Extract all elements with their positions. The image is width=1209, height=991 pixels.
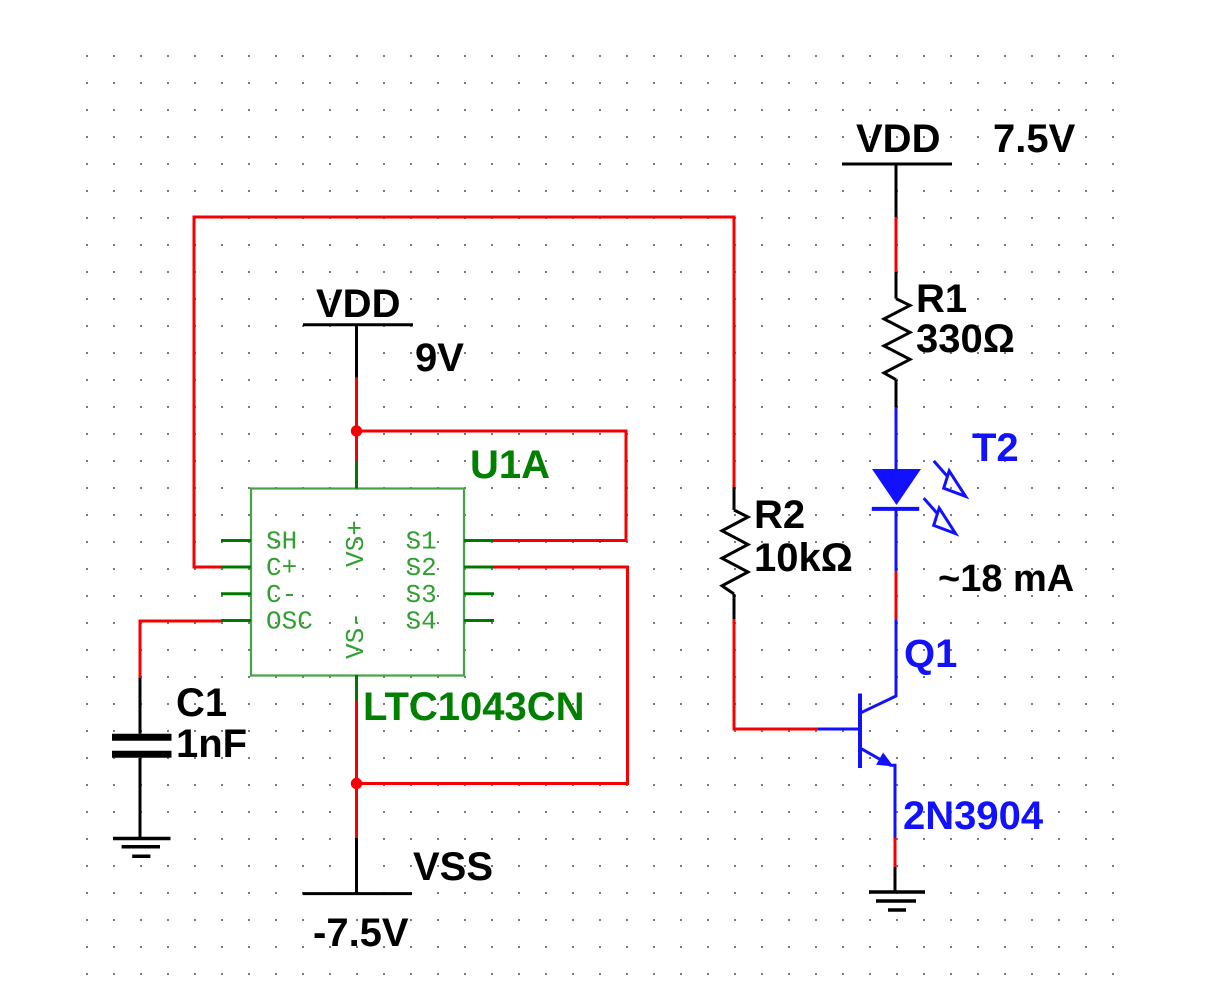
power VDD 9V symbol (chip supply)	[303, 282, 413, 378]
svg-text:R2: R2	[754, 493, 805, 537]
power VDD 7.5V symbol	[842, 117, 952, 217]
wire net C+ red stub into pin	[193, 566, 222, 569]
svg-text:SH: SH	[266, 527, 297, 557]
svg-text:VS+: VS+	[341, 520, 371, 567]
svg-text:OSC: OSC	[266, 607, 313, 637]
svg-text:1nF: 1nF	[176, 722, 247, 766]
wire S2 net: from pin S2	[494, 566, 629, 569]
wire S2 net: vertical	[626, 566, 629, 784]
pin S4	[464, 619, 494, 622]
ground (right, under Q1)	[869, 867, 925, 910]
pin S2	[464, 566, 494, 569]
svg-text:C-: C-	[266, 580, 297, 610]
svg-text:9V: 9V	[415, 336, 464, 380]
wire chip VSS pin down (red)	[355, 701, 358, 839]
svg-text:VDD: VDD	[856, 117, 940, 161]
junction node VSS/S2	[351, 778, 362, 789]
svg-text:LTC1043CN: LTC1043CN	[363, 685, 585, 729]
LED T2	[872, 407, 1019, 571]
ground (left, under C1)	[113, 839, 171, 857]
wire S1 net: vertical	[625, 430, 628, 541]
svg-text:R1: R1	[916, 277, 967, 321]
pin VDD (top)	[355, 462, 358, 489]
pin C+	[221, 566, 251, 569]
wire Q1 emitter to ground (red)	[894, 838, 897, 867]
svg-text:S3: S3	[406, 580, 437, 610]
svg-text:-7.5V: -7.5V	[313, 911, 409, 955]
pin C-	[221, 592, 251, 595]
svg-text:S4: S4	[406, 607, 437, 637]
svg-text:C1: C1	[176, 681, 227, 725]
wire net C+/R2 top: left vertical	[193, 216, 196, 568]
svg-text:S1: S1	[406, 527, 437, 557]
svg-text:VSS: VSS	[413, 845, 493, 889]
wire S1 net: horizontal from junction	[357, 430, 628, 433]
svg-text:330Ω: 330Ω	[916, 317, 1015, 361]
pin OSC	[221, 619, 251, 622]
svg-text:Q1: Q1	[904, 632, 957, 676]
pin S1	[464, 539, 494, 542]
wire net C+/R2 top: right vertical down to R2	[733, 216, 736, 488]
wire R2 bottom to Q1 base (red)	[733, 619, 819, 731]
svg-text:2N3904: 2N3904	[903, 794, 1044, 838]
pin S3	[464, 592, 494, 595]
svg-text:C+: C+	[266, 553, 297, 583]
svg-text:~18 mA: ~18 mA	[938, 558, 1074, 600]
svg-text:VDD: VDD	[316, 282, 400, 326]
svg-text:S2: S2	[406, 553, 437, 583]
op-amp/IC U1A LTC1043CN	[221, 443, 585, 729]
wire LED cathode to Q1 collector (red)	[895, 571, 898, 619]
svg-text:7.5V: 7.5V	[993, 117, 1076, 161]
power VSS -7.5V symbol	[303, 838, 493, 894]
wire net C+/R2 top: top horizontal	[193, 216, 736, 219]
svg-text:VS-: VS-	[341, 612, 371, 659]
transistor Q1	[818, 619, 1044, 838]
svg-text:10kΩ: 10kΩ	[754, 536, 853, 580]
resistor R2	[722, 487, 853, 619]
junction node 9V/S1	[351, 425, 362, 436]
wire OSC to C1 (red)	[140, 620, 221, 679]
wire S1 net: into pin S1	[494, 539, 628, 542]
resistor R1	[884, 272, 1015, 407]
wire 9V to chip VDD pin (red)	[355, 378, 358, 462]
capacitor C1	[112, 678, 247, 837]
wire S2 net: horizontal to VSS node	[357, 782, 630, 785]
pin SH	[221, 539, 251, 542]
pin VSS (bottom)	[355, 675, 358, 701]
svg-text:U1A: U1A	[470, 443, 550, 487]
wire VDD to R1 (red)	[895, 217, 898, 272]
svg-text:T2: T2	[972, 426, 1019, 470]
